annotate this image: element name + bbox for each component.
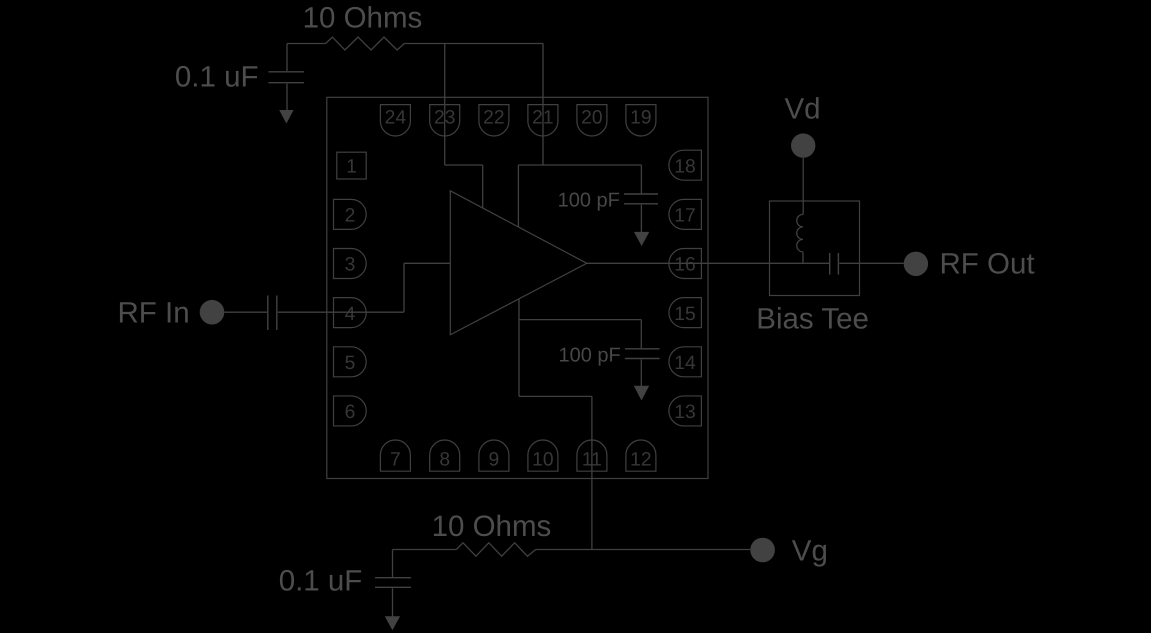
svg-text:100 pF: 100 pF — [558, 190, 620, 212]
pin 7 — [380, 440, 410, 471]
pin 18 — [669, 150, 701, 180]
svg-text:22: 22 — [483, 108, 504, 129]
pin 6 — [334, 396, 367, 426]
svg-text:9: 9 — [489, 450, 500, 471]
svg-text:10 Ohms: 10 Ohms — [303, 1, 423, 34]
bottom rail right segment — [536, 549, 751, 551]
pin 2 — [334, 199, 367, 229]
svg-text:16: 16 — [674, 255, 695, 276]
wire C1 to ground — [286, 84, 288, 111]
svg-text:20: 20 — [581, 108, 602, 129]
pin 14 — [669, 347, 701, 377]
svg-text:Vd: Vd — [785, 92, 821, 125]
bias tee box — [770, 201, 860, 296]
pin 16 — [669, 249, 701, 279]
svg-text:1: 1 — [346, 156, 357, 177]
wire top rail right segment — [404, 43, 543, 45]
wire pin21 vertical — [542, 44, 544, 166]
node RF Out — [904, 252, 928, 276]
capacitor C2 100 pF — [624, 194, 658, 204]
pin 24 — [380, 105, 410, 136]
capacitor C3 (input coupling) — [268, 296, 277, 331]
pin 21 — [528, 105, 558, 136]
wire drop to amp top — [517, 165, 519, 227]
svg-text:12: 12 — [630, 450, 651, 471]
pin 22 — [479, 105, 509, 136]
wire lower jog to pin 11 — [519, 395, 592, 397]
wire C2 to ground — [640, 205, 642, 232]
wire pin16 to bias tee — [587, 262, 829, 264]
bottom rail left segment — [393, 549, 457, 551]
pin 23 — [430, 105, 460, 136]
svg-text:17: 17 — [674, 206, 695, 227]
wire Vd to inductor — [802, 158, 804, 215]
svg-text:19: 19 — [630, 108, 651, 129]
pin 17 — [669, 199, 701, 229]
svg-text:4: 4 — [345, 304, 356, 325]
capacitor C4 100 pF — [625, 349, 660, 359]
svg-text:15: 15 — [674, 304, 695, 325]
wire node 21/C2 horizontal — [518, 164, 641, 166]
pin 13 — [669, 396, 701, 426]
pin 12 — [626, 440, 656, 471]
svg-text:0.1 uF: 0.1 uF — [175, 61, 259, 94]
op-amp U1 amplifier triangle — [450, 191, 587, 335]
pin 15 — [669, 298, 701, 328]
svg-text:14: 14 — [674, 353, 696, 374]
ground (C6) — [385, 616, 400, 630]
wire C4 to ground — [640, 360, 642, 387]
svg-text:6: 6 — [345, 402, 356, 423]
svg-text:2: 2 — [345, 206, 356, 227]
wire inductor to RF line — [802, 252, 804, 263]
lower amp drop wire — [518, 299, 520, 396]
resistor R2 — [456, 543, 535, 556]
wire C4 stub — [640, 320, 642, 348]
svg-text:7: 7 — [390, 450, 401, 471]
wire C5 to RF Out — [839, 262, 903, 264]
pin 19 — [626, 105, 656, 136]
svg-text:10 Ohms: 10 Ohms — [432, 510, 552, 543]
wire input riser — [403, 263, 405, 312]
wire C6 to ground — [392, 588, 394, 616]
ground (C1) — [279, 110, 293, 124]
svg-text:23: 23 — [434, 108, 455, 129]
svg-text:18: 18 — [674, 156, 695, 177]
wire pin23 drop to amp — [482, 165, 484, 208]
ground (C2) — [634, 232, 649, 246]
svg-text:21: 21 — [532, 108, 553, 129]
wire into amp input — [404, 262, 450, 264]
svg-text:3: 3 — [345, 255, 356, 276]
pin 3 — [334, 249, 367, 279]
wire pin 11 drop — [591, 396, 593, 549]
svg-text:5: 5 — [345, 353, 356, 374]
svg-text:100 pF: 100 pF — [559, 344, 621, 366]
pin 9 — [479, 440, 509, 471]
pin 4 — [334, 298, 367, 328]
wire pin23 vertical — [444, 44, 446, 166]
wire pin23 horizontal jog — [445, 164, 483, 166]
ground (C4) — [634, 386, 649, 401]
pin 20 — [577, 105, 607, 136]
wire C6 stub — [392, 550, 394, 578]
wire top rail left segment — [287, 43, 326, 45]
svg-text:8: 8 — [439, 450, 450, 471]
svg-text:Vg: Vg — [792, 535, 828, 568]
IC U1 package outline — [327, 97, 708, 478]
svg-text:Bias Tee: Bias Tee — [756, 303, 869, 336]
svg-text:10: 10 — [532, 450, 553, 471]
wire C3 to pin 4 — [278, 311, 404, 313]
svg-text:13: 13 — [674, 402, 695, 423]
wire RF In to C3 — [224, 311, 267, 313]
pin 8 — [430, 440, 460, 471]
capacitor C6 0.1 uF — [375, 578, 411, 588]
pin 1 — [337, 152, 366, 179]
resistor R1 — [326, 37, 405, 50]
capacitor C1 0.1 uF — [269, 72, 305, 83]
svg-text:RF In: RF In — [118, 297, 190, 330]
node Vd — [791, 133, 815, 157]
svg-text:0.1 uF: 0.1 uF — [279, 565, 363, 598]
pin 11 — [577, 440, 607, 471]
pin 5 — [334, 347, 367, 377]
wire C2 stub — [640, 165, 642, 193]
node RF In — [200, 300, 225, 325]
wire node C4 horizontal — [519, 319, 641, 321]
inductor L1 (bias tee choke) — [797, 214, 803, 252]
capacitor C5 (bias tee blocking) — [830, 253, 839, 275]
wire C1 vertical stub — [286, 44, 288, 72]
svg-text:RF Out: RF Out — [940, 248, 1035, 281]
node Vg — [750, 538, 775, 563]
svg-text:24: 24 — [385, 108, 407, 129]
pin 10 — [528, 440, 558, 471]
